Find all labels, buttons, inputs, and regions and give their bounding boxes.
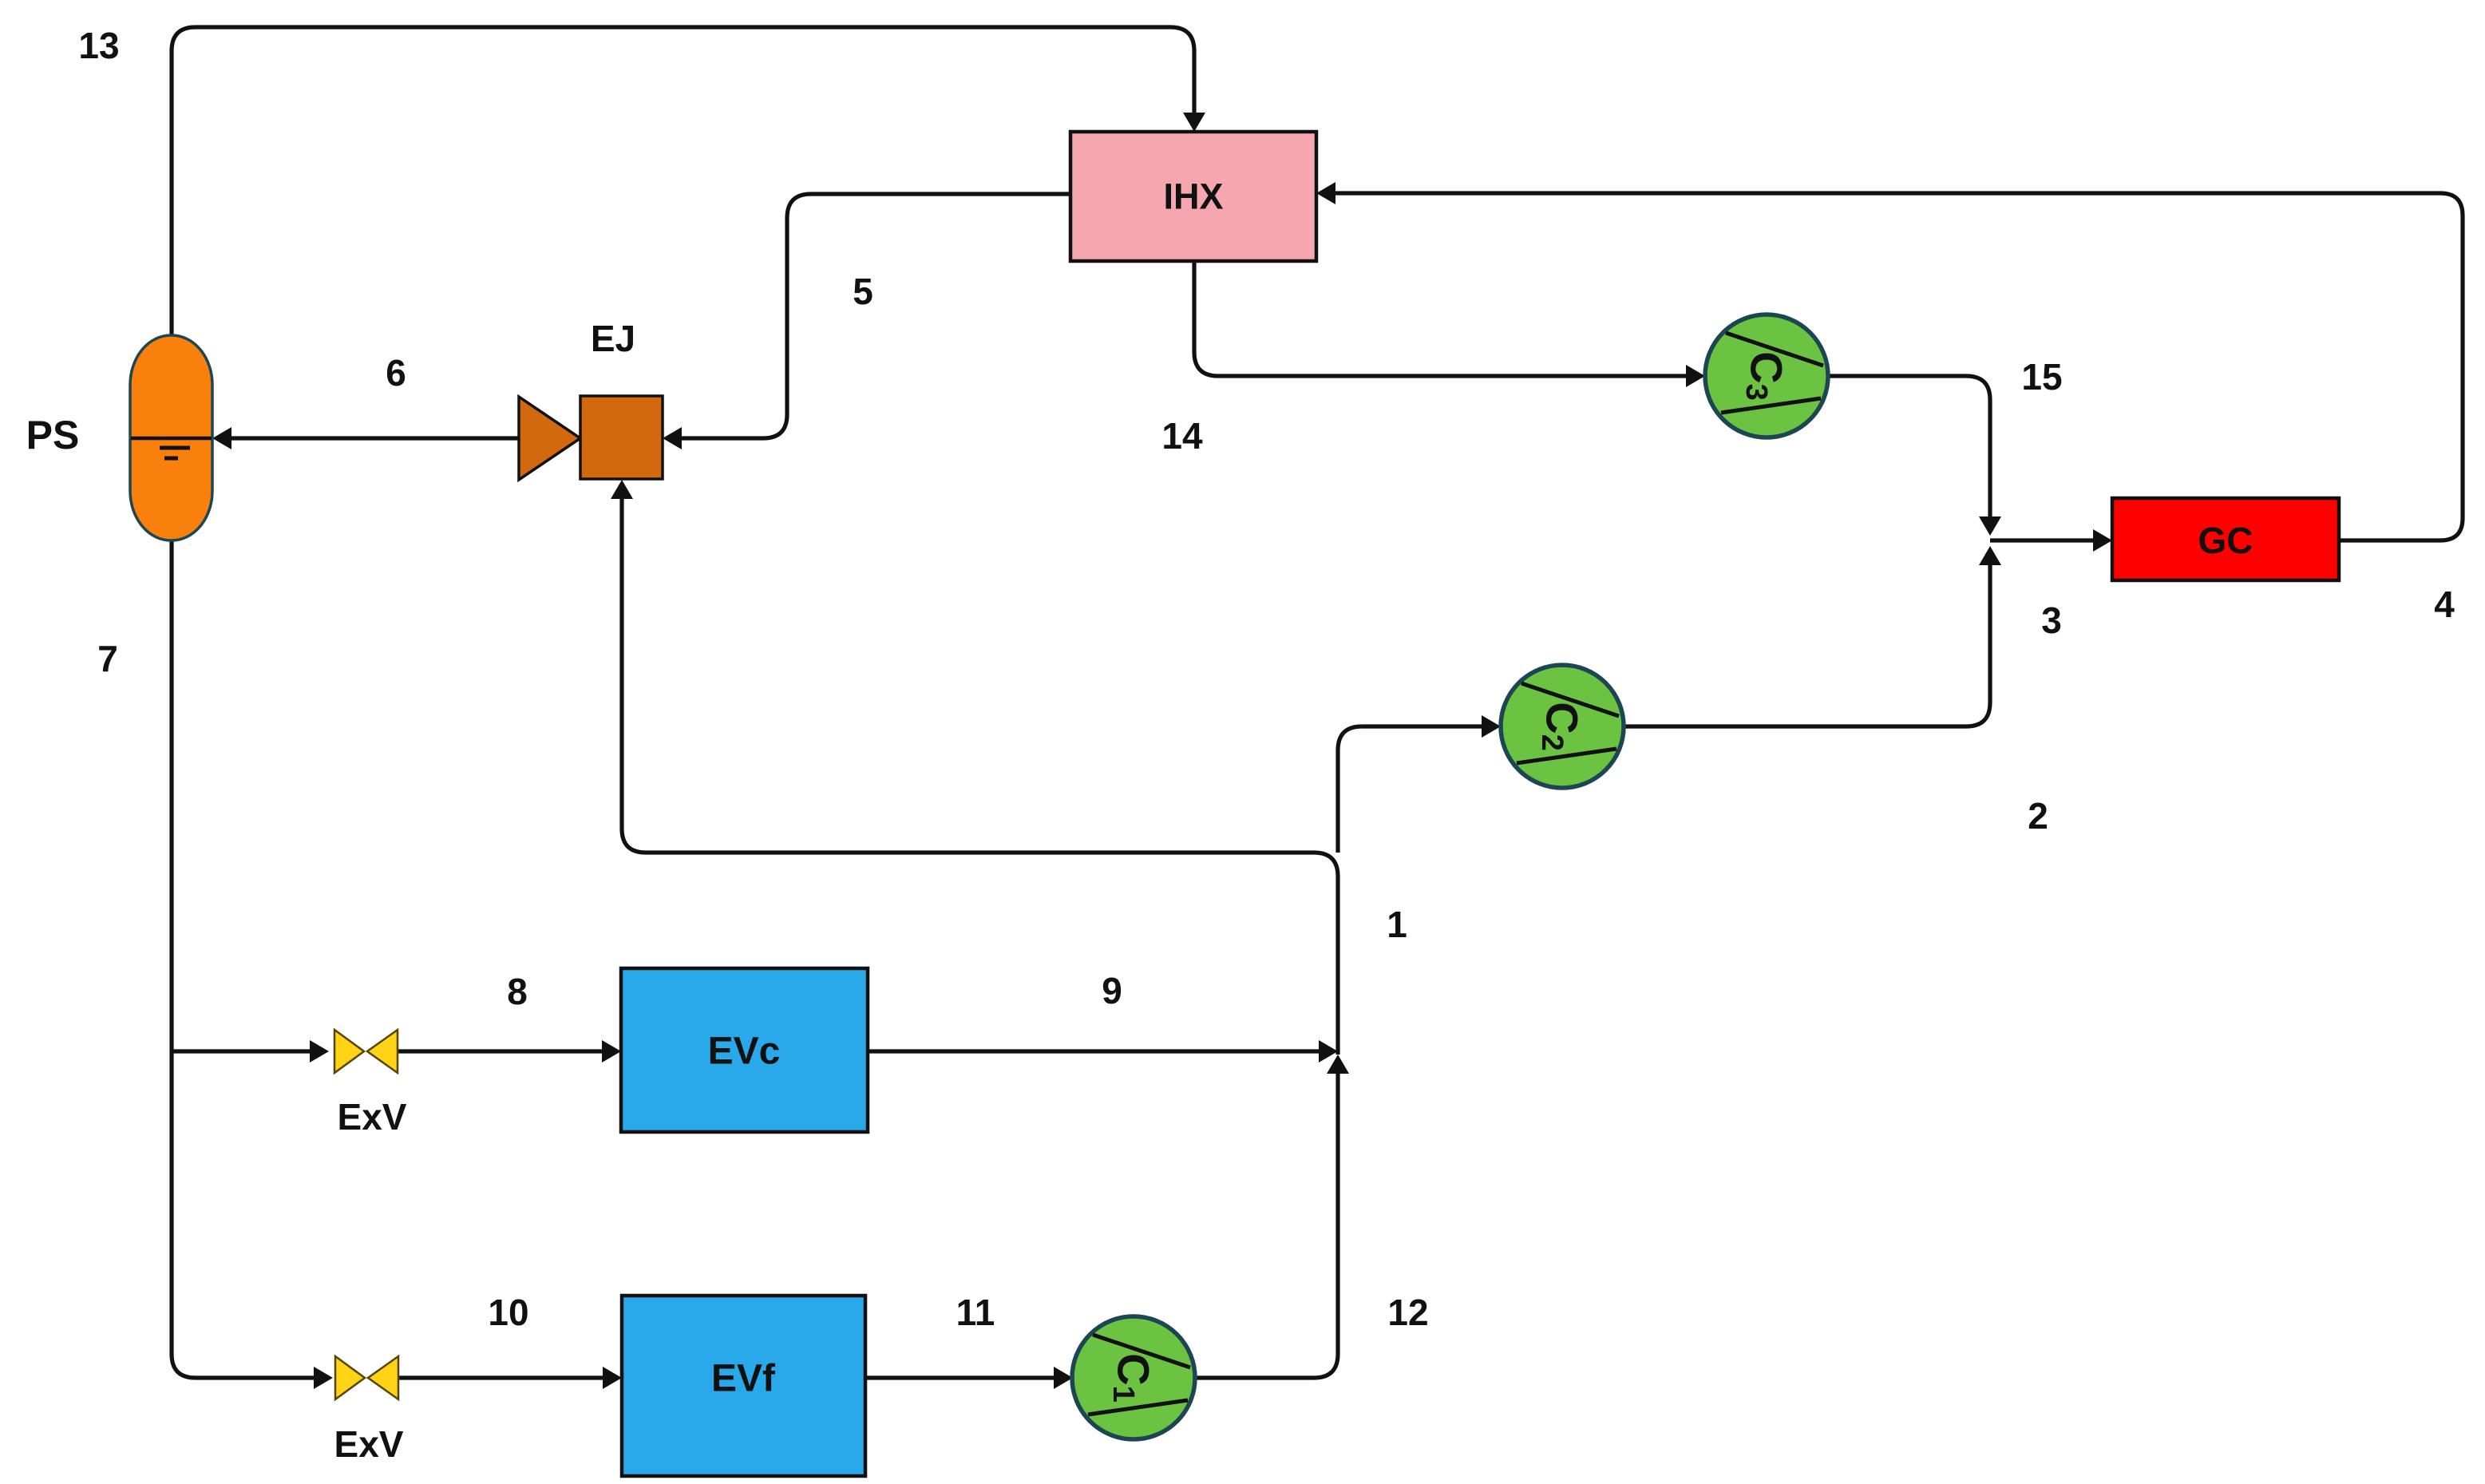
wire 7 (PS bottom down, to bottom ExV) (172, 540, 315, 1378)
compressor C2 (1501, 665, 1624, 788)
svg-text:EJ: EJ (591, 318, 635, 359)
wire 13 (PS top to IHX top) (172, 27, 1194, 340)
svg-text:4: 4 (2434, 584, 2455, 625)
wire 1 (node 1 up, left along long run, up into EJ bottom) (622, 497, 1338, 1055)
PS liquid level line (131, 437, 212, 441)
svg-text:EVf: EVf (711, 1358, 776, 1400)
arrowhead into bottom ExV (314, 1367, 333, 1389)
svg-text:12: 12 (1387, 1292, 1428, 1333)
svg-text:2: 2 (2028, 795, 2048, 837)
expansion valve ExV top (334, 1030, 398, 1073)
arrowhead into IHX right (1316, 182, 1335, 204)
arrowhead down at junction (1979, 516, 2001, 536)
PS level dash 1 (160, 446, 190, 450)
svg-text:IHX: IHX (1163, 176, 1223, 217)
wire 6 (EJ to PS) (230, 436, 519, 440)
svg-text:7: 7 (97, 638, 118, 679)
svg-text:PS: PS (26, 413, 80, 457)
svg-text:6: 6 (386, 352, 406, 394)
heat exchanger IHX (1070, 132, 1316, 261)
wire 5 (IHX left to EJ right) (680, 194, 1070, 438)
svg-text:EVc: EVc (708, 1031, 781, 1073)
arrowhead into C3 (1686, 365, 1705, 387)
svg-text:3: 3 (2041, 600, 2062, 641)
wire 11 (EVf to C1) (865, 1375, 1055, 1379)
arrowhead at node 1 (1319, 1040, 1338, 1063)
ejector EJ nozzle triangle (519, 397, 580, 480)
arrowhead into top ExV (310, 1040, 329, 1063)
svg-text:1: 1 (1387, 904, 1407, 945)
svg-text:9: 9 (1102, 970, 1122, 1011)
separator PS (liquid separator vessel) (130, 335, 212, 540)
arrowhead into IHX top (1183, 113, 1205, 132)
wire 1 to C2 (vertical continues up, right into C2) (1338, 726, 1483, 853)
svg-text:11: 11 (956, 1292, 995, 1333)
evaporator EVc (621, 968, 868, 1132)
arrowhead into EJ square right (663, 427, 682, 449)
wire 15 (C3 right to junction above GC line) (1828, 376, 1990, 518)
wire junction to GC (1990, 538, 2095, 542)
arrowhead into C2 (1482, 715, 1501, 738)
svg-text:ExV: ExV (338, 1096, 407, 1138)
compressor C1 (1072, 1316, 1195, 1439)
svg-text:10: 10 (488, 1292, 528, 1333)
wire 9 (EVc to node 1) (868, 1049, 1320, 1053)
svg-text:8: 8 (507, 971, 528, 1012)
arrowhead into GC left (2093, 529, 2112, 552)
svg-text:14: 14 (1161, 415, 1203, 457)
compressor C3 (1705, 315, 1828, 437)
gas cooler GC (2112, 498, 2339, 580)
arrowhead into C1 (1054, 1367, 1073, 1389)
ejector EJ body square (580, 396, 663, 479)
svg-text:GC: GC (2198, 520, 2254, 561)
arrowhead into EJ bottom (611, 480, 633, 499)
svg-text:15: 15 (2021, 356, 2062, 398)
wire 12 (C1 right, up to node 1) (1194, 1072, 1338, 1378)
PS level dash 2 (164, 457, 178, 461)
wire 2 / wire 3 (C2 right, up to junction) (1624, 564, 1990, 726)
wire 10 (bottom ExV to EVf) (398, 1375, 604, 1379)
arrowhead up at junction (1979, 546, 2001, 565)
wire 14 (IHX bottom to C3) (1194, 261, 1688, 376)
arrowhead up at node 1 (1327, 1055, 1349, 1074)
arrowhead into PS right (212, 427, 231, 449)
evaporator EVf (622, 1296, 865, 1476)
wire 8 (top ExV to EVc) (396, 1049, 603, 1053)
arrowhead into EVc (602, 1040, 621, 1063)
svg-text:5: 5 (853, 271, 873, 312)
arrowhead into EVf (603, 1367, 622, 1389)
expansion valve ExV bottom (335, 1356, 398, 1399)
svg-text:13: 13 (78, 25, 119, 66)
svg-text:ExV: ExV (334, 1423, 404, 1465)
wire 8 branch (to top ExV) (172, 1049, 311, 1053)
wire 4 (GC right up and left to IHX right) (1334, 193, 2463, 540)
